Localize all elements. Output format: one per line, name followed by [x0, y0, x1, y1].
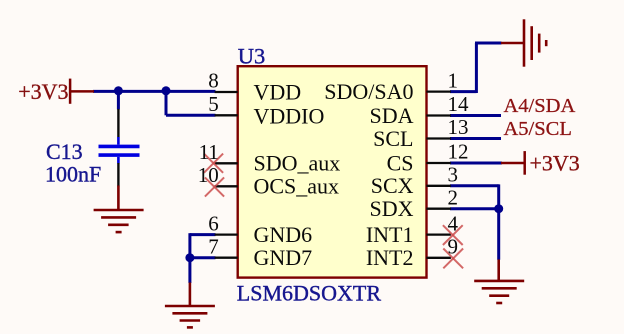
svg-text:14: 14	[448, 92, 470, 116]
svg-text:INT2: INT2	[366, 245, 414, 270]
svg-text:GND7: GND7	[254, 245, 313, 270]
svg-text:11: 11	[199, 140, 219, 164]
svg-text:U3: U3	[238, 43, 265, 68]
svg-text:SCL: SCL	[373, 126, 413, 151]
svg-text:SDX: SDX	[369, 196, 413, 221]
svg-text:10: 10	[198, 163, 219, 187]
svg-text:13: 13	[448, 115, 469, 139]
svg-text:A5/SCL: A5/SCL	[504, 118, 572, 140]
svg-text:5: 5	[208, 92, 219, 116]
svg-text:2: 2	[448, 185, 459, 209]
svg-text:OCS_aux: OCS_aux	[254, 174, 340, 199]
svg-text:3: 3	[448, 163, 459, 187]
svg-text:1: 1	[448, 68, 459, 92]
svg-text:7: 7	[208, 234, 219, 258]
svg-text:LSM6DSOXTR: LSM6DSOXTR	[237, 281, 382, 306]
svg-text:100nF: 100nF	[45, 161, 101, 186]
svg-text:SDO_aux: SDO_aux	[254, 151, 341, 176]
svg-text:+3V3: +3V3	[18, 79, 68, 104]
svg-text:VDDIO: VDDIO	[254, 103, 325, 128]
svg-text:CS: CS	[387, 150, 414, 175]
svg-text:SDO/SA0: SDO/SA0	[324, 79, 413, 104]
svg-text:12: 12	[448, 140, 469, 164]
svg-text:8: 8	[208, 69, 219, 93]
svg-text:GND6: GND6	[254, 222, 313, 247]
svg-text:6: 6	[208, 211, 219, 235]
svg-text:9: 9	[448, 235, 459, 259]
svg-text:4: 4	[448, 211, 459, 235]
svg-text:SCX: SCX	[371, 173, 414, 198]
svg-text:INT1: INT1	[366, 222, 414, 247]
svg-text:SDA: SDA	[369, 103, 413, 128]
svg-text:A4/SDA: A4/SDA	[504, 95, 576, 117]
svg-text:+3V3: +3V3	[530, 150, 580, 175]
svg-text:VDD: VDD	[254, 80, 302, 105]
